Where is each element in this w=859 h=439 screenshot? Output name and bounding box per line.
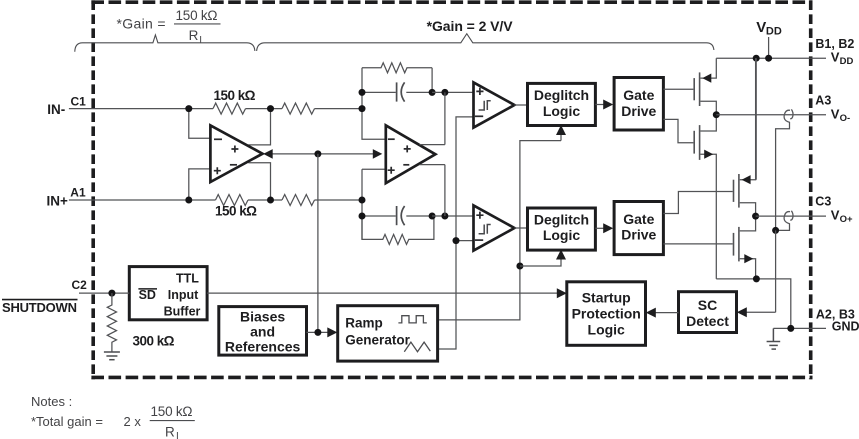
arrowhead into SC Detect bbox=[737, 307, 747, 317]
node dot ramp line junction bbox=[453, 237, 460, 244]
wire IN- input line with resistors bbox=[69, 108, 213, 110]
wire oscillator sync line bbox=[438, 141, 561, 320]
svg-text:Input: Input bbox=[168, 288, 199, 302]
svg-text:DD: DD bbox=[766, 26, 782, 38]
op-amp U1 input differential amplifier bbox=[210, 125, 262, 182]
svg-text:SD: SD bbox=[139, 288, 156, 302]
svg-text:SC: SC bbox=[698, 297, 717, 313]
svg-text:Buffer: Buffer bbox=[164, 304, 201, 318]
svg-text:V: V bbox=[831, 50, 840, 65]
VDD rail bbox=[716, 57, 826, 59]
svg-text:*Gain = 2 V/V: *Gain = 2 V/V bbox=[427, 18, 514, 34]
arrowhead into op-amp U1 output bbox=[263, 149, 273, 159]
wire lower comparator inverting stub bbox=[456, 240, 474, 242]
wire ramp signal to comparator inverting inputs bbox=[438, 117, 474, 349]
svg-text:O+: O+ bbox=[840, 214, 853, 225]
wire SHUTDOWN input bbox=[79, 292, 129, 294]
svg-text:Drive: Drive bbox=[621, 103, 656, 119]
node dot on reference line bbox=[314, 150, 321, 157]
wire OUT- to pin bbox=[716, 114, 826, 116]
node dot sense junction bbox=[772, 227, 779, 234]
wire VDD drop to PMOS Q3 bbox=[755, 58, 757, 180]
capacitor lower integrator feedback bbox=[362, 215, 432, 217]
wire sense line down to SC detect bbox=[775, 230, 777, 312]
svg-text:SHUTDOWN: SHUTDOWN bbox=[2, 300, 77, 315]
wire integrator bottom output bbox=[420, 165, 445, 216]
wire upper feedback resistor right leg bbox=[431, 68, 433, 93]
wire biases output bbox=[307, 331, 329, 333]
node dot IN+ line joins integrator bbox=[359, 197, 366, 204]
svg-text:Gate: Gate bbox=[623, 211, 654, 227]
svg-text:C3: C3 bbox=[815, 195, 831, 209]
svg-text:DD: DD bbox=[840, 56, 854, 67]
ground symbol (GND pin) bbox=[767, 328, 781, 349]
wire GND pin line bbox=[773, 327, 826, 329]
node dot R3-R4 junction bbox=[267, 197, 274, 204]
svg-text:O-: O- bbox=[840, 113, 851, 124]
svg-text:2 x: 2 x bbox=[124, 414, 142, 429]
wire upper feedback to comparator bbox=[432, 91, 473, 93]
node dot lower feedback left bbox=[359, 213, 366, 220]
wire OUT+ to pin bbox=[756, 215, 826, 217]
resistor 150k R1 bbox=[213, 103, 245, 114]
node dot VDD rail 2 bbox=[765, 55, 772, 62]
arrowhead sync into upper Deglitch bbox=[560, 135, 562, 141]
wire integrator lower input vertical bbox=[361, 169, 363, 239]
Gate Drive box (upper) bbox=[614, 78, 663, 131]
svg-text:V: V bbox=[756, 19, 766, 36]
node dot OUT+ bbox=[752, 213, 759, 220]
svg-text:Logic: Logic bbox=[543, 103, 581, 119]
wire reference line to bias junction bbox=[317, 154, 319, 333]
transistor Q4 NMOS low-side (OUT+) bbox=[734, 216, 756, 279]
svg-text:150 kΩ: 150 kΩ bbox=[176, 8, 218, 23]
wire integrator lower input stub bbox=[362, 168, 386, 170]
node dot IN- junction bbox=[185, 105, 192, 112]
arrowhead into Startup logic right bbox=[646, 308, 656, 318]
wire gate drive to PMOS Q3 gate bbox=[663, 192, 732, 214]
svg-text:A3: A3 bbox=[815, 94, 831, 108]
wire comparator U3 output bbox=[514, 104, 527, 106]
op-amp U2 integrator bbox=[386, 125, 436, 183]
node dot upper feedback right bbox=[429, 89, 436, 96]
svg-text:Logic: Logic bbox=[543, 227, 581, 243]
node dot OUT- bbox=[713, 111, 720, 118]
svg-text:150 kΩ: 150 kΩ bbox=[215, 203, 257, 218]
wire R4 to integrator lower node bbox=[315, 199, 363, 201]
svg-text:Notes :: Notes : bbox=[31, 394, 72, 409]
svg-text:C2: C2 bbox=[72, 278, 88, 292]
comparator U3 polarity marks bbox=[475, 88, 484, 117]
arrowhead sync into lower Deglitch bbox=[556, 250, 566, 260]
svg-text:R: R bbox=[165, 425, 175, 439]
node dot VDD rail 1 bbox=[753, 55, 760, 62]
wire op-amp1 inverting input stub bbox=[189, 109, 211, 139]
arrowhead into op-amp U2 bbox=[373, 149, 383, 159]
svg-text:C1: C1 bbox=[71, 94, 87, 108]
capacitor upper integrator feedback bbox=[362, 91, 432, 93]
wire OUT+ sense hook bbox=[784, 212, 790, 224]
svg-text:300 kΩ: 300 kΩ bbox=[133, 333, 175, 348]
wire common-mode reference line between amps bbox=[272, 153, 374, 155]
svg-text:Deglitch: Deglitch bbox=[534, 87, 589, 103]
wire comparator U4 output bbox=[514, 227, 527, 229]
transistor Q2 NMOS low-side (OUT-) bbox=[694, 115, 716, 279]
svg-text:and: and bbox=[250, 324, 275, 340]
IC boundary dashed box bbox=[91, 0, 812, 379]
transistor Q3 PMOS high-side (OUT+) bbox=[734, 58, 756, 216]
wire lower feedback to comparator bbox=[432, 215, 473, 217]
svg-text:Biases: Biases bbox=[240, 308, 285, 324]
svg-text:Deglitch: Deglitch bbox=[534, 211, 589, 227]
svg-text:I: I bbox=[176, 431, 179, 439]
wire OUT- sense hook bbox=[784, 110, 790, 122]
wire op-amp1 bottom feedback tap bbox=[248, 163, 270, 200]
node dot lower feedback right bbox=[429, 213, 436, 220]
svg-text:Drive: Drive bbox=[621, 227, 656, 243]
TTL Input Buffer box bbox=[129, 267, 207, 320]
wire gate drive to PMOS Q1 gate bbox=[663, 88, 693, 90]
node dot biases output junction bbox=[314, 329, 321, 336]
svg-text:References: References bbox=[225, 339, 301, 355]
svg-text:IN+: IN+ bbox=[47, 194, 69, 209]
node dot IN+ junction bbox=[185, 197, 192, 204]
node dot integrator bottom output bbox=[441, 213, 448, 220]
wire integrator upper input vertical bbox=[362, 68, 386, 139]
resistor lower integrator feedback bbox=[362, 216, 434, 244]
brace under input-stage gain formula bbox=[75, 35, 255, 52]
comparator U4 bbox=[474, 205, 515, 250]
wire gate drive to NMOS Q4 gate bbox=[663, 243, 732, 245]
resistor upper integrator feedback bbox=[362, 63, 432, 73]
arrowhead into Ramp Generator bbox=[327, 327, 337, 337]
svg-text:R: R bbox=[189, 28, 199, 43]
svg-text:V: V bbox=[831, 106, 840, 121]
Ramp Generator box bbox=[338, 306, 438, 361]
transistor Q1 PMOS high-side (OUT-) bbox=[694, 58, 716, 114]
svg-text:TTL: TTL bbox=[176, 271, 199, 285]
svg-text:Logic: Logic bbox=[588, 321, 626, 337]
svg-text:IN-: IN- bbox=[47, 102, 65, 117]
wire R2 to integrator input node bbox=[315, 108, 363, 110]
Gate Drive box (lower) bbox=[614, 202, 663, 255]
Biases and References box bbox=[219, 307, 307, 356]
ground symbol (shutdown resistor) bbox=[104, 352, 120, 360]
node dot shutdown resistor tap bbox=[108, 290, 115, 297]
svg-text:Generator: Generator bbox=[345, 332, 410, 347]
wire integrator top output bbox=[420, 92, 445, 144]
svg-text:150 kΩ: 150 kΩ bbox=[151, 404, 193, 419]
wire ground bus bbox=[716, 279, 791, 329]
wire gate drive to NMOS Q2 gate bbox=[663, 119, 693, 142]
node dot ground junction bbox=[753, 275, 760, 282]
overline for SHUTDOWN bbox=[2, 299, 78, 301]
svg-text:Startup: Startup bbox=[582, 290, 631, 306]
triangle wave icon bbox=[404, 342, 430, 352]
wire IN+ input line bbox=[69, 199, 216, 201]
wire op-amp1 top feedback tap bbox=[248, 109, 270, 145]
svg-text:*Total gain =: *Total gain = bbox=[31, 414, 103, 429]
node dot IN- line joins integrator bbox=[359, 105, 366, 112]
wire output sense into SC Detect bbox=[746, 311, 776, 313]
wire R1 to R2 bbox=[246, 108, 283, 110]
node dot R1-R2 junction bbox=[267, 105, 274, 112]
resistor 300k pulldown bbox=[107, 293, 116, 352]
svg-text:*Gain =: *Gain = bbox=[117, 15, 166, 31]
svg-text:Protection: Protection bbox=[572, 306, 641, 322]
svg-text:GND: GND bbox=[832, 320, 859, 334]
Deglitch Logic box (lower) bbox=[528, 208, 596, 250]
square wave icon bbox=[398, 316, 426, 323]
brace under *Gain = 2 V/V bbox=[257, 34, 714, 51]
notes text bbox=[31, 394, 193, 439]
hysteresis symbol U3 bbox=[479, 101, 491, 110]
arrow Deglitch to Gate Drive (lower) bbox=[595, 227, 603, 229]
Startup Protection Logic box bbox=[567, 282, 646, 346]
arrow Deglitch to Gate Drive (upper) bbox=[595, 104, 603, 106]
node dot sync branch bbox=[516, 263, 523, 270]
op-amp U1 polarity marks bbox=[214, 139, 239, 174]
wire VDD stub bbox=[768, 37, 770, 58]
comparator U3 bbox=[474, 82, 515, 127]
arrowhead into Startup Protection Logic bbox=[557, 288, 567, 298]
resistor 150k R3 bbox=[216, 195, 248, 206]
op-amp U2 polarity marks bbox=[388, 139, 411, 174]
svg-text:Gate: Gate bbox=[623, 87, 654, 103]
node dot upper feedback left bbox=[359, 89, 366, 96]
svg-text:Detect: Detect bbox=[686, 313, 729, 329]
svg-text:Ramp: Ramp bbox=[345, 316, 383, 331]
Deglitch Logic box (upper) bbox=[528, 83, 596, 125]
wire op-amp1 non-inverting input stub bbox=[189, 169, 211, 200]
svg-text:V: V bbox=[831, 208, 840, 223]
node dot integrator top output bbox=[441, 89, 448, 96]
wire R3 to R4 bbox=[248, 199, 282, 201]
wire SC Detect to Startup logic bbox=[655, 312, 679, 314]
SC Detect box bbox=[679, 292, 737, 333]
svg-text:A1: A1 bbox=[70, 186, 86, 200]
wire sync branch to lower Deglitch bbox=[520, 259, 561, 267]
svg-text:I: I bbox=[199, 35, 202, 46]
fraction bar in notes bbox=[150, 420, 195, 422]
wire TTL buffer output to startup logic bbox=[207, 292, 558, 294]
svg-text:150 kΩ: 150 kΩ bbox=[214, 88, 256, 103]
node dot GND pin bbox=[787, 325, 794, 332]
resistor R4 bbox=[282, 195, 314, 206]
hysteresis symbol U4 bbox=[479, 225, 491, 234]
comparator U4 polarity marks bbox=[475, 212, 484, 241]
gain formula label: *Gain = 150 kOhm / RI bbox=[117, 8, 221, 46]
resistor R2 bbox=[282, 103, 314, 114]
